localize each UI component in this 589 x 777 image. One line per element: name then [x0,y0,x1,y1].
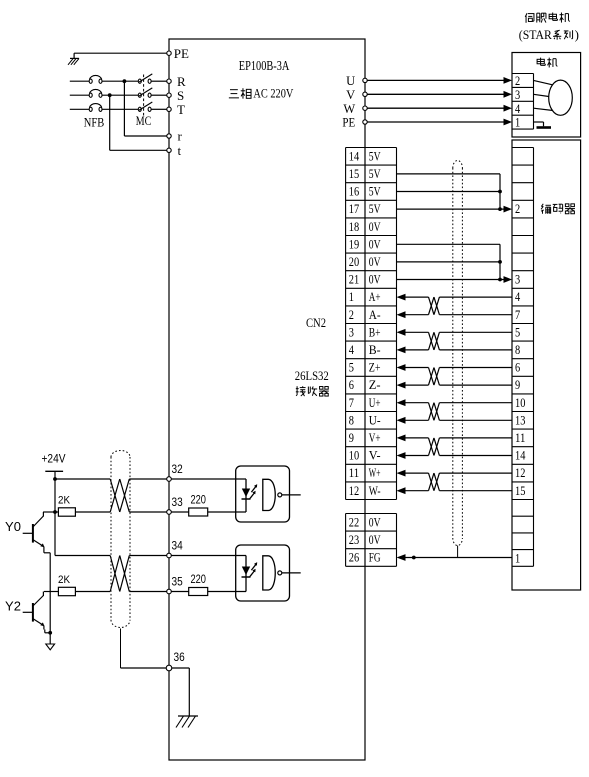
svg-text:1: 1 [515,551,520,566]
svg-text:6: 6 [349,377,355,392]
svg-text:6: 6 [515,360,521,375]
svg-text:NFB: NFB [84,116,105,130]
svg-text:11: 11 [515,430,525,445]
svg-text:Z-: Z- [369,377,381,392]
svg-text:16: 16 [349,184,360,199]
svg-text:7: 7 [349,395,355,410]
svg-text:EP100B-3A: EP100B-3A [239,58,290,73]
svg-text:2K: 2K [58,574,71,586]
svg-text:22: 22 [349,514,359,529]
svg-text:2: 2 [515,73,520,88]
svg-text:U+: U+ [369,395,381,410]
svg-text:5V: 5V [369,148,381,163]
svg-text:Y2: Y2 [5,599,21,614]
svg-text:0V: 0V [369,532,381,547]
svg-text:CN2: CN2 [306,316,326,330]
svg-text:B+: B+ [369,324,381,339]
svg-text:5: 5 [349,360,354,375]
svg-text:23: 23 [349,532,359,547]
svg-text:3: 3 [515,87,520,102]
svg-text:0V: 0V [369,254,381,269]
svg-text:36: 36 [174,652,185,664]
svg-text:R: R [177,74,186,89]
svg-text:+24V: +24V [42,452,66,466]
svg-text:4: 4 [515,289,521,304]
svg-text:W: W [343,102,355,116]
svg-text:0V: 0V [369,514,381,529]
svg-text:220: 220 [190,574,206,586]
svg-text:4: 4 [349,342,355,357]
svg-text:Y0: Y0 [5,519,21,534]
svg-text:): ) [575,27,579,42]
svg-text:(STAR: (STAR [519,27,552,42]
svg-text:14: 14 [349,148,360,163]
svg-text:35: 35 [172,577,183,589]
svg-text:A-: A- [369,307,381,322]
svg-text:10: 10 [515,395,525,410]
svg-text:2: 2 [349,307,354,322]
svg-text:32: 32 [172,464,183,476]
svg-text:5V: 5V [369,184,381,199]
svg-text:T: T [177,102,185,117]
svg-text:0V: 0V [369,219,381,234]
svg-text:12: 12 [349,483,359,498]
svg-text:5V: 5V [369,201,381,216]
svg-text:V: V [346,88,355,102]
svg-text:26: 26 [349,550,360,565]
svg-text:V+: V+ [369,430,381,445]
svg-text:t: t [178,143,182,158]
svg-text:5V: 5V [369,166,381,181]
svg-text:1: 1 [515,115,520,130]
svg-text:MC: MC [136,114,152,128]
svg-text:0V: 0V [369,272,381,287]
svg-text:21: 21 [349,272,359,287]
svg-text:FG: FG [369,550,381,565]
svg-text:9: 9 [349,430,354,445]
svg-text:2: 2 [515,201,520,216]
svg-text:4: 4 [515,101,521,116]
svg-text:220: 220 [190,494,206,506]
svg-text:S: S [177,88,184,103]
svg-text:2K: 2K [58,495,71,507]
svg-text:8: 8 [349,412,354,427]
svg-text:B-: B- [369,342,381,357]
svg-text:PE: PE [174,46,189,61]
svg-text:15: 15 [349,166,359,181]
svg-text:PE: PE [342,116,355,130]
svg-text:r: r [178,129,183,144]
svg-text:3: 3 [515,272,520,287]
svg-text:AC 220V: AC 220V [253,86,293,101]
svg-text:12: 12 [515,465,525,480]
svg-text:3: 3 [349,324,354,339]
svg-text:V-: V- [369,448,381,463]
svg-text:7: 7 [515,307,521,322]
svg-text:11: 11 [349,465,359,480]
svg-text:5: 5 [515,324,520,339]
svg-text:18: 18 [349,219,359,234]
svg-text:9: 9 [515,377,520,392]
svg-text:19: 19 [349,236,359,251]
svg-text:14: 14 [515,448,526,463]
svg-text:20: 20 [349,254,359,269]
svg-text:0V: 0V [369,236,381,251]
svg-text:U: U [346,74,355,88]
svg-text:33: 33 [172,497,183,509]
svg-text:26LS32: 26LS32 [295,369,329,383]
svg-text:W-: W- [369,483,381,498]
svg-text:W+: W+ [369,465,381,480]
svg-text:1: 1 [349,289,354,304]
svg-text:A+: A+ [369,289,381,304]
svg-text:13: 13 [515,412,525,427]
svg-text:Z+: Z+ [369,360,381,375]
svg-text:8: 8 [515,342,520,357]
svg-text:15: 15 [515,483,525,498]
svg-text:10: 10 [349,448,359,463]
svg-text:U-: U- [369,412,381,427]
svg-text:17: 17 [349,201,360,216]
svg-text:34: 34 [172,541,184,553]
